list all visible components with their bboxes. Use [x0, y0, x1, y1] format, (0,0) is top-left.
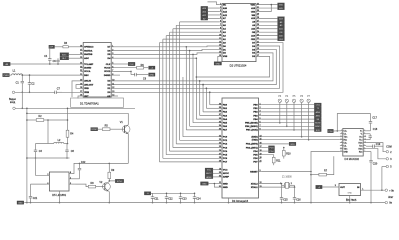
wire data row 58: [114, 57, 196, 59]
junction: [109, 180, 111, 182]
wire R7 up: [327, 156, 334, 174]
svg-text:MISO: MISO: [315, 126, 321, 128]
svg-text:24: 24: [219, 143, 221, 145]
svg-text:13: 13: [112, 91, 114, 93]
svg-text:OE: OE: [252, 32, 256, 34]
svg-text:C17: C17: [372, 117, 377, 120]
svg-text:38: 38: [219, 111, 221, 113]
inductor L1: [12, 70, 23, 76]
svg-text:3: 3: [70, 183, 71, 185]
svg-text:PD3_(INT1): PD3_(INT1): [246, 147, 258, 149]
svg-text:GND: GND: [348, 192, 353, 194]
transistor V1: [120, 121, 130, 134]
svg-text:GND: GND: [344, 151, 349, 153]
wire bus elbow 2: [166, 154, 219, 156]
svg-text:R1o: R1o: [344, 139, 347, 141]
capacitor C12: [165, 193, 173, 202]
wire R4 bot: [67, 137, 69, 143]
capacitor C2: [28, 75, 35, 92]
wire to R6: [114, 67, 137, 69]
svg-text:12: 12: [219, 41, 221, 43]
svg-text:31: 31: [257, 7, 259, 9]
wire R10 bot: [283, 156, 285, 159]
wire AVCC: [213, 172, 219, 174]
svg-text:3: 3: [112, 53, 113, 55]
svg-text:6: 6: [112, 66, 113, 68]
wire V1 emit: [127, 134, 129, 163]
svg-text:21: 21: [257, 41, 259, 43]
wire R2 out: [44, 119, 68, 121]
junction: [26, 108, 28, 110]
svg-text:30: 30: [257, 10, 259, 12]
wire CE2: [259, 5, 272, 12]
svg-text:35: 35: [219, 121, 221, 123]
wire bus v7: [182, 77, 184, 137]
svg-text:6: 6: [260, 121, 261, 123]
wire bus v6: [179, 22, 181, 140]
svg-text:14: 14: [112, 95, 114, 97]
wire bus v13: [202, 85, 204, 112]
junction: [310, 174, 312, 176]
svg-text:25: 25: [80, 57, 82, 59]
junction: [57, 63, 59, 65]
wire R9 top: [108, 163, 110, 172]
svg-text:вход: вход: [10, 101, 16, 104]
svg-text:11: 11: [340, 135, 342, 137]
svg-text:24: 24: [80, 63, 82, 65]
svg-text:21: 21: [80, 74, 82, 76]
svg-text:7: 7: [364, 144, 365, 146]
wire c18a: [366, 133, 370, 135]
node SS label: [314, 117, 321, 121]
svg-text:PB5_(MOSI): PB5_(MOSI): [245, 123, 258, 125]
capacitor C8: [65, 144, 74, 159]
terminal +9V: [385, 189, 388, 192]
junction: [67, 119, 69, 121]
svg-text:1: 1: [70, 178, 71, 180]
wire V2 emit: [108, 191, 110, 202]
svg-text:15: 15: [260, 138, 262, 140]
wire PB: [261, 118, 314, 120]
node A11 label: [278, 27, 285, 31]
svg-text:IGATDB: IGATDB: [84, 53, 93, 56]
node CE1 label: [278, 37, 285, 41]
node AIN1 label: [314, 114, 321, 118]
node AGC label: [60, 53, 69, 57]
capacitor C14: [193, 193, 201, 202]
junction: [294, 186, 296, 188]
junction: [26, 202, 28, 204]
junction: [209, 92, 211, 94]
svg-text:4: 4: [112, 57, 113, 59]
node GND label C9: [149, 73, 155, 77]
svg-text:8: 8: [70, 172, 71, 174]
junction: [49, 46, 51, 48]
svg-text:7: 7: [112, 70, 113, 72]
junction: [214, 183, 216, 185]
svg-text:29: 29: [219, 161, 221, 163]
svg-text:AB: AB: [107, 95, 111, 98]
svg-text:8: 8: [260, 129, 261, 131]
wire A12: [208, 14, 220, 16]
svg-text:26: 26: [219, 150, 221, 152]
svg-text:GND: GND: [216, 63, 221, 65]
svg-text:29: 29: [257, 14, 259, 16]
svg-text:25: 25: [257, 27, 259, 29]
junction: [337, 130, 339, 132]
svg-text:17: 17: [257, 55, 259, 57]
wire cap rail: [151, 192, 195, 194]
svg-text:BLC: BLC: [62, 58, 66, 60]
node BLC label: [60, 57, 69, 61]
svg-text:14: 14: [260, 135, 262, 137]
svg-text:VDD: VDD: [250, 4, 255, 6]
junction: [29, 92, 31, 94]
svg-text:R2in: R2in: [359, 148, 363, 150]
svg-text:10: 10: [340, 147, 342, 149]
svg-text:1: 1: [341, 130, 342, 132]
junction: [26, 157, 28, 159]
junction: [22, 108, 24, 110]
svg-text:T1in: T1in: [344, 137, 348, 139]
wire bus elbow 8: [186, 129, 219, 131]
junction: [189, 50, 191, 52]
svg-text:9: 9: [364, 150, 365, 152]
junction: [194, 202, 196, 204]
svg-text:SYNC: SYNC: [117, 181, 123, 183]
node AVCC label: [205, 172, 213, 176]
svg-text:31: 31: [219, 186, 221, 188]
svg-text:17: 17: [260, 146, 262, 148]
wire stair 2: [166, 35, 219, 37]
capacitor C21 body: [29, 184, 38, 203]
svg-text:Vcc: Vcc: [359, 137, 362, 139]
svg-text:IGATDA: IGATDA: [84, 49, 93, 52]
node A12 label: [201, 13, 208, 17]
junction: [279, 122, 281, 124]
wire PD3: [261, 147, 268, 149]
wire sync line: [80, 162, 129, 164]
capacitor C3: [34, 144, 43, 159]
wire AGC: [69, 53, 81, 55]
junction: [30, 202, 32, 204]
svg-text:CLK: CLK: [106, 64, 111, 66]
svg-text:D4 MAX232: D4 MAX232: [345, 157, 360, 161]
junction: [301, 136, 303, 138]
capacitor C20 body: [369, 152, 378, 203]
wire to R7: [311, 174, 319, 176]
svg-text:T1o: T1o: [359, 139, 362, 141]
junction: [202, 84, 204, 86]
junction: [370, 202, 372, 204]
svg-text:8: 8: [364, 147, 365, 149]
svg-text:XTAL1: XTAL1: [251, 186, 259, 189]
wire D2 A10: [259, 35, 278, 37]
node A15 label: [278, 6, 285, 10]
svg-text:14: 14: [364, 138, 366, 140]
svg-text:GND: GND: [223, 187, 228, 189]
wire box-D4: [333, 130, 340, 132]
wire PB: [261, 104, 314, 106]
junction: [294, 202, 296, 204]
node A16 label: [201, 6, 208, 10]
resistor R4 body: [66, 130, 74, 137]
wire gnd return left: [26, 108, 28, 202]
svg-text:27: 27: [80, 49, 82, 51]
svg-text:13: 13: [219, 45, 221, 47]
junction: [109, 163, 111, 165]
svg-text:C12: C12: [168, 198, 173, 201]
capacitor C16: [293, 187, 301, 203]
wire bus elbow 13: [203, 111, 219, 113]
wire bus v0: [159, 43, 161, 162]
wire vref1: [72, 81, 80, 97]
wire d5 out: [72, 163, 80, 173]
wire PB: [261, 115, 314, 117]
svg-text:18: 18: [80, 87, 82, 89]
wire tp P3: [279, 103, 281, 123]
svg-text:CLK: CLK: [130, 64, 135, 66]
svg-text:SYNC: SYNC: [91, 129, 97, 131]
svg-text:20: 20: [260, 157, 262, 159]
svg-text:R11: R11: [276, 160, 281, 163]
junction: [310, 202, 312, 204]
svg-text:Z1 16000: Z1 16000: [282, 177, 292, 179]
wire bus v14: [205, 88, 207, 108]
wire D1 data 85: [114, 84, 203, 86]
wire d5 gnd: [59, 191, 61, 203]
capacitor C7: [15, 88, 62, 94]
wire bus elbow 15: [210, 104, 219, 106]
svg-text:(TXD): (TXD): [252, 140, 258, 142]
node SYNC label: [91, 128, 98, 132]
wire d3 bottom stub: [228, 198, 230, 203]
wire VP-R3: [55, 46, 63, 48]
wire tp P6: [301, 103, 303, 137]
svg-text:GND: GND: [18, 203, 23, 205]
svg-text:14: 14: [219, 48, 221, 50]
svg-text:GND: GND: [202, 183, 207, 185]
svg-text:VRM: VRM: [84, 92, 89, 94]
wire bus elbow 10: [193, 122, 219, 124]
capacitor C9: [131, 73, 148, 81]
svg-text:PD2_(INT0): PD2_(INT0): [246, 144, 258, 146]
wire R9 bot: [108, 179, 110, 181]
wire V2 coll: [109, 180, 115, 183]
svg-text:40: 40: [219, 103, 221, 105]
svg-text:D2 UT621024: D2 UT621024: [230, 63, 247, 67]
resistor R8 body: [88, 182, 95, 188]
svg-text:2: 2: [364, 130, 365, 132]
wire TXD: [261, 139, 340, 141]
svg-text:C1-: C1-: [344, 134, 347, 136]
svg-text:28: 28: [219, 157, 221, 159]
svg-text:XTAL2: XTAL2: [251, 182, 259, 185]
junction: [199, 80, 201, 82]
wire bus elbow 1: [163, 157, 219, 159]
junction: [196, 76, 198, 78]
svg-text:4: 4: [260, 114, 261, 116]
svg-text:VRT: VRT: [84, 96, 89, 98]
wire D2 pin1: [208, 2, 220, 5]
wire stair 0: [160, 42, 220, 44]
junction: [67, 108, 69, 110]
junction: [22, 74, 24, 76]
svg-text:R2o: R2o: [359, 151, 362, 153]
wire drop to L2: [47, 120, 49, 144]
wire AB stub: [114, 95, 118, 97]
svg-text:10: 10: [219, 168, 221, 170]
capacitor C22 body: [78, 161, 86, 179]
wire C7-D1: [62, 91, 80, 93]
wire line113: [27, 112, 128, 114]
svg-text:IAGND: IAGND: [84, 67, 91, 70]
wire D2 A13: [259, 17, 278, 19]
svg-text:D6 7805: D6 7805: [346, 198, 357, 202]
capacitor C18 body: [369, 128, 378, 140]
wire bus elbow 0: [160, 161, 220, 163]
node PD4 label: [269, 149, 275, 153]
svg-text:20: 20: [257, 45, 259, 47]
node PD3 label: [269, 146, 275, 150]
svg-text:5: 5: [220, 17, 221, 19]
svg-text:21: 21: [260, 161, 262, 163]
wire C17 down: [366, 130, 370, 132]
wire l1b: [23, 74, 81, 76]
wire D2 data down: [196, 56, 269, 77]
junction: [202, 84, 204, 86]
svg-text:OUT: OUT: [340, 187, 345, 189]
node PD0 label: [328, 129, 334, 133]
wire GND1: [208, 183, 219, 185]
wire row64: [10, 63, 80, 65]
junction: [130, 71, 132, 73]
junction: [206, 88, 208, 90]
wire ground rail: [24, 202, 385, 204]
wire tp P7: [308, 103, 310, 140]
svg-text:C14: C14: [196, 198, 201, 201]
wire term5: [382, 166, 386, 168]
svg-text:33: 33: [219, 129, 221, 131]
wire R10 top: [283, 148, 285, 151]
capacitor C6 body: [53, 58, 60, 64]
svg-text:23: 23: [257, 34, 259, 36]
junction: [199, 80, 201, 82]
wire D2 data down: [206, 46, 279, 88]
IC D6 7805 regulator: [339, 184, 361, 202]
svg-text:3: 3: [341, 132, 342, 134]
junction: [281, 202, 283, 204]
wire xtal2: [261, 184, 281, 186]
node A14 label: [201, 10, 208, 14]
wire D1 data 81: [114, 80, 200, 82]
wire d6 out: [322, 186, 339, 188]
svg-text:AREF: AREF: [206, 176, 212, 179]
terminal 0V: [385, 201, 388, 204]
svg-text:AGC: AGC: [62, 53, 67, 56]
IC D4 MAX232: [340, 129, 366, 162]
wire stair 3: [170, 31, 220, 33]
wire term3: [366, 149, 386, 159]
wire D2 VDD: [259, 4, 278, 6]
junction: [180, 202, 182, 204]
wire stair 4: [173, 28, 219, 30]
wire bus elbow 5: [176, 143, 219, 145]
capacitor C17: [369, 114, 378, 131]
wire xtal1: [261, 185, 294, 187]
node T1 label: [314, 107, 321, 111]
wire bus v3: [169, 32, 171, 151]
wire bus v5: [175, 25, 177, 144]
wire D2 A15: [259, 7, 278, 9]
svg-text:VCCD: VCCD: [104, 68, 111, 70]
wire D2 data down: [200, 53, 273, 81]
svg-text:22: 22: [219, 135, 221, 137]
svg-text:11: 11: [112, 83, 114, 85]
wire tp P5: [293, 103, 295, 130]
svg-text:34: 34: [219, 125, 221, 127]
node GND label D3: [201, 182, 209, 186]
svg-text:AVCC: AVCC: [223, 172, 229, 175]
wire bus elbow 9: [190, 125, 220, 127]
junction: [281, 183, 283, 185]
svg-text:C16: C16: [296, 198, 301, 201]
wire CLK: [114, 63, 128, 65]
wire row158: [27, 157, 70, 159]
svg-text:7: 7: [260, 125, 261, 127]
junction: [79, 163, 81, 165]
wire 5 down: [381, 167, 383, 191]
wire c1 down: [21, 92, 23, 108]
svg-text:ANLIN: ANLIN: [84, 80, 91, 83]
junction: [228, 202, 230, 204]
wire V1 coll: [127, 113, 129, 124]
svg-text:DEC: DEC: [84, 75, 89, 77]
svg-text:VCC: VCC: [207, 170, 212, 172]
svg-text:C2-: C2-: [344, 145, 347, 147]
svg-text:C18: C18: [373, 128, 378, 131]
wire PB: [261, 129, 314, 131]
node OC0 label: [314, 103, 321, 107]
wire bus v12: [199, 81, 201, 116]
svg-text:R1in: R1in: [359, 142, 363, 144]
resistor R9 body: [108, 169, 115, 178]
terminal 3: [386, 158, 389, 161]
wire R8-V2: [96, 186, 105, 188]
wire bus v2: [165, 36, 167, 155]
svg-text:7: 7: [220, 24, 221, 26]
wire bus elbow 3: [170, 150, 220, 152]
wire GND2: [214, 184, 219, 188]
svg-text:C11: C11: [154, 198, 159, 201]
wire bus elbow 14: [206, 107, 219, 109]
node VP label: [49, 45, 55, 49]
wire PB: [261, 122, 314, 124]
resistor R11 body: [272, 157, 281, 163]
junction: [192, 54, 194, 56]
junction: [180, 193, 182, 195]
wire A14: [208, 11, 220, 13]
junction: [209, 92, 211, 94]
wire R11 bot: [273, 163, 275, 165]
junction: [47, 119, 49, 121]
svg-text:37: 37: [219, 114, 221, 116]
wire gnd drop: [311, 152, 340, 203]
wire term2: [366, 143, 386, 152]
svg-text:16: 16: [364, 135, 366, 137]
wire bus v9: [189, 51, 191, 127]
junction: [26, 119, 28, 121]
